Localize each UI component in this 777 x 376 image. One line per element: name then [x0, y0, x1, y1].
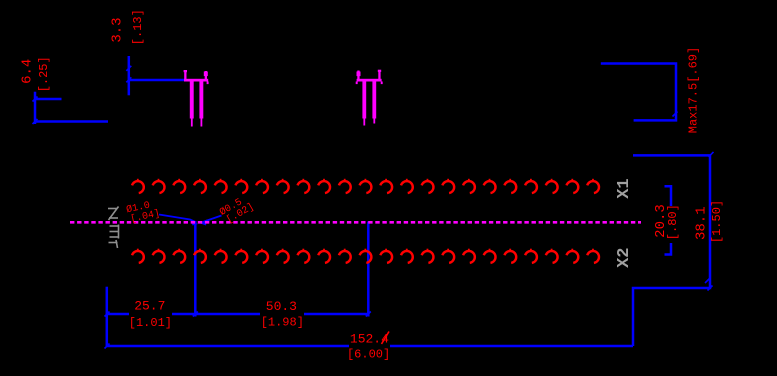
left extension vertical — [106, 287, 109, 346]
svg-text:25.7: 25.7 — [134, 299, 165, 314]
dim 6.4 upper extension — [35, 98, 62, 101]
row X2 — [132, 249, 599, 263]
svg-text:[1.01]: [1.01] — [129, 316, 172, 330]
tick — [33, 119, 38, 124]
extension line x195 — [194, 222, 197, 317]
svg-text:[.25]: [.25] — [37, 56, 51, 92]
svg-text:38.1: 38.1 — [693, 206, 709, 240]
tick — [126, 66, 131, 71]
extension line x368 — [367, 222, 370, 317]
tick — [673, 112, 678, 117]
leader arrowheads — [191, 220, 208, 226]
dim line 25.7/50.3 seg3 — [304, 313, 368, 316]
tick — [33, 97, 38, 102]
centerline — [70, 221, 641, 224]
dim 152.4 baseline left part — [107, 345, 349, 348]
tick — [708, 286, 713, 291]
dim line 25.7/50.3 seg1 — [107, 313, 129, 316]
row X1 — [132, 179, 599, 193]
svg-text:[.13]: [.13] — [131, 9, 145, 45]
svg-text:Max17.5[.69]: Max17.5[.69] — [687, 47, 701, 133]
svg-text:X2: X2 — [615, 247, 634, 267]
centerline symbol — [108, 207, 119, 249]
tick — [709, 152, 714, 157]
dim Max17.5 bracket — [601, 64, 676, 121]
tick — [366, 312, 371, 317]
svg-text:[1.98]: [1.98] — [261, 316, 304, 330]
svg-text:[1.50]: [1.50] — [710, 200, 724, 243]
tick — [193, 312, 198, 317]
dim 3.3 extension to pin — [129, 79, 184, 82]
svg-text:152.4: 152.4 — [350, 332, 389, 347]
dim 6.4 vertical line — [34, 92, 37, 124]
dim 6.4 lower extension — [35, 120, 108, 123]
svg-text:6.4: 6.4 — [19, 59, 35, 84]
leader note 1 — [125, 198, 161, 226]
svg-text:X1: X1 — [615, 178, 634, 198]
pin P1 side view — [184, 70, 209, 127]
leader note 2 — [218, 192, 257, 227]
tick — [126, 77, 131, 82]
dim 3.3 vertical line — [128, 56, 131, 95]
svg-text:[.80]: [.80] — [666, 204, 680, 240]
dim 38.1 bracket with 152.4 baseline step — [633, 155, 710, 346]
leader 2 — [201, 216, 222, 224]
dim 20.3 bracket — [665, 186, 672, 206]
leader 1 — [159, 215, 197, 223]
svg-text:50.3: 50.3 — [266, 299, 297, 314]
svg-text:3.3: 3.3 — [110, 17, 126, 42]
tick — [705, 278, 710, 283]
tick — [105, 312, 110, 317]
dim 152.4 baseline right part — [390, 345, 633, 348]
tick — [105, 344, 110, 349]
dim line 25.7/50.3 seg2 — [172, 313, 260, 316]
pin P2 side view — [356, 70, 383, 126]
svg-text:[6.00]: [6.00] — [347, 348, 390, 362]
